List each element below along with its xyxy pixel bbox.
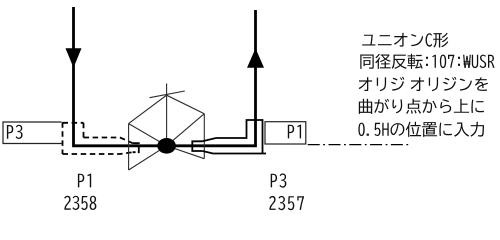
- centerline dash-dot extension: [308, 144, 410, 146]
- valve right base edge: [203, 114, 205, 159]
- flow arrow down (left riser): [66, 48, 82, 67]
- label box P3 (open right side): [3, 122, 62, 144]
- valve center ball: [157, 138, 176, 154]
- elbow fitting outline right (solid): [202, 120, 266, 154]
- text line1 ユニオンC形: [362, 33, 448, 48]
- valve roof lines: [129, 95, 205, 123]
- union valve symbol: [129, 84, 205, 171]
- socket cap left (dashed bracket): [133, 143, 139, 152]
- text line4 曲がり点から上に: [359, 99, 484, 114]
- label P1 in box: [288, 125, 301, 139]
- label P1 below left elbow: [78, 174, 91, 188]
- label P3 below right elbow: [271, 173, 287, 187]
- text line3 オリジ オリジンを: [359, 77, 488, 91]
- text line2 同径反転:107:(won)USR: [360, 54, 494, 69]
- label box P1: [265, 122, 306, 144]
- socket cap right (bracket): [192, 141, 202, 151]
- valve left base edge: [128, 124, 130, 170]
- wire: left riser pipe and horizontal run: [74, 7, 256, 146]
- label 2358: [64, 196, 96, 210]
- flow arrow up (right riser): [247, 48, 264, 68]
- label P3 in box: [7, 125, 23, 139]
- valve stem: [166, 84, 168, 146]
- valve cone lines (bowtie): [129, 124, 167, 170]
- elbow fitting outline left (dashed, hidden): [63, 122, 133, 154]
- label 2357: [269, 196, 304, 210]
- valve handle: [150, 91, 185, 98]
- text line5 0.5Hの位置に入力: [358, 122, 484, 137]
